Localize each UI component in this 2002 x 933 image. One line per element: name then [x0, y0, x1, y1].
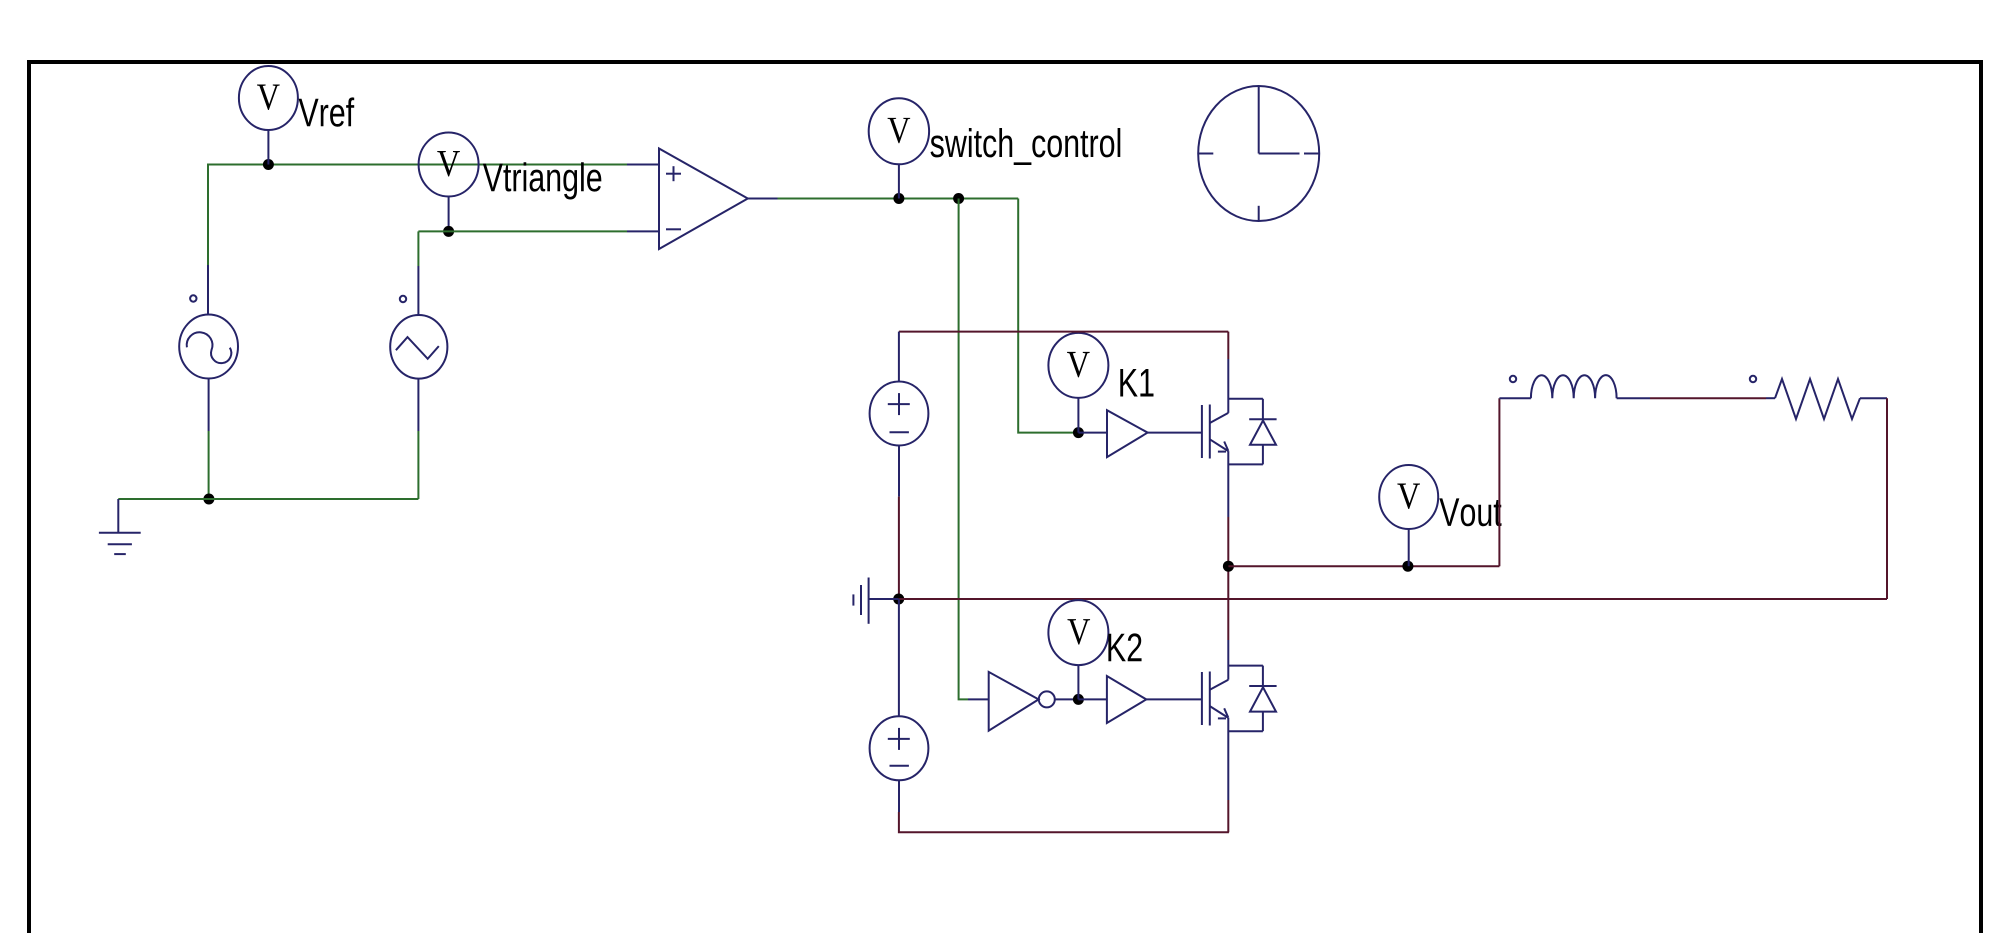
wire Vref node to op-amp noninverting input [208, 165, 627, 266]
label K2 [1108, 633, 1141, 661]
node junction switch_control [893, 193, 904, 204]
voltmeter switch_control [869, 98, 929, 198]
wire sine source to ground rail [208, 431, 210, 499]
label Vref [299, 97, 355, 126]
node junction Vref [263, 159, 274, 170]
buffer gate A1 [1078, 410, 1202, 457]
NOT gate A2 [968, 672, 1078, 731]
ground G2 [853, 578, 898, 624]
label Vtriangle [483, 162, 601, 199]
wire inductor to resistor [1650, 397, 1766, 399]
voltmeter Vout [1379, 465, 1438, 566]
dc source VDC1 [870, 332, 929, 497]
wire Vtriangle node down to triangle source [417, 231, 419, 266]
wire VDC2 minus to bottom rail [899, 812, 1229, 832]
dc source VDC2 [870, 599, 929, 812]
node junction ground rail [893, 594, 904, 605]
buffer gate A3 [1078, 676, 1202, 723]
wire op-amp output to switch_control net [778, 198, 1019, 200]
node junction Vout [1402, 561, 1413, 572]
label Vout [1439, 498, 1501, 526]
wire switch_control down to K1 buffer input [1018, 199, 1078, 433]
sine voltage source Vsin [179, 265, 238, 431]
voltmeter K1 [1048, 333, 1108, 433]
node junction K2 branch [953, 193, 964, 204]
ground G1 [99, 499, 141, 554]
transistor Q1 IGBT [1202, 332, 1263, 567]
clock symbol [1198, 86, 1319, 221]
transistor Q2 IGBT [1202, 566, 1263, 832]
label K1 [1120, 369, 1153, 397]
node junction K1 [1073, 427, 1084, 438]
wire switch_control down to NOT gate input [959, 199, 968, 700]
wire ground rail to load return [899, 598, 1887, 600]
wire top rail of bridge [899, 331, 1228, 333]
wire resistor return [1886, 398, 1888, 599]
node junction at source return [203, 494, 214, 505]
node junction Vtriangle [443, 226, 454, 237]
wire ground rail bottom left [118, 498, 418, 500]
wire triangle source to ground rail [417, 431, 419, 499]
voltmeter K2 [1048, 600, 1108, 699]
wire load riser [1498, 398, 1500, 566]
node junction Vout midpoint [1223, 561, 1234, 572]
voltmeter Vref [239, 66, 298, 165]
diode D2 antiparallel [1249, 666, 1276, 732]
label switch_control [931, 128, 1121, 165]
wire Vtriangle node to op-amp inverting input [418, 230, 627, 232]
triangle voltage source Vtri [390, 266, 447, 431]
diode D1 antiparallel [1249, 399, 1276, 465]
node junction K2 [1073, 694, 1084, 705]
wire bridge midpoint to load [1228, 565, 1499, 567]
resistor R1 [1750, 376, 1887, 419]
op-amp comparator U1 [627, 149, 778, 250]
wire VDC1 minus to ground node [898, 497, 900, 599]
voltmeter Vtriangle [419, 133, 479, 232]
inductor L1 [1499, 375, 1650, 398]
